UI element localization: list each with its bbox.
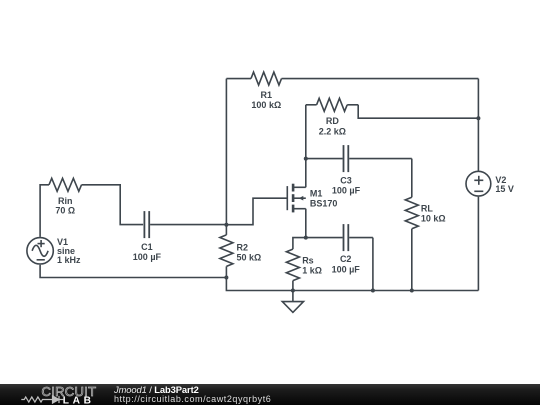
wire: V1 bottom across to R2 bottom node	[40, 265, 226, 278]
wire: M1 source down to Rs node	[305, 209, 307, 238]
resistor Rin	[49, 178, 82, 215]
wire: RD right corner down and across to right rail	[358, 105, 478, 118]
wire: RL bottom to bottom rail	[411, 229, 413, 291]
svg-text:15 V: 15 V	[495, 184, 514, 194]
wire: bottom rail	[226, 278, 478, 291]
svg-text:2.2 kΩ: 2.2 kΩ	[319, 126, 346, 136]
svg-text:1 kΩ: 1 kΩ	[302, 266, 322, 276]
CircuitLab logo wordmark CIRCUIT	[42, 384, 97, 399]
svg-text:50 kΩ: 50 kΩ	[237, 253, 262, 263]
svg-text:RD: RD	[326, 116, 339, 126]
capacitor C1	[133, 211, 227, 262]
ground	[282, 291, 303, 313]
resistor RL	[405, 197, 445, 229]
voltage source V2 15V	[466, 171, 514, 196]
wire: C2 right down to bottom rail	[372, 238, 374, 291]
junction dot: source / Rs / C2 node	[304, 236, 308, 240]
svg-text:C1: C1	[141, 242, 153, 252]
resistor RD	[306, 98, 358, 136]
svg-text:70 Ω: 70 Ω	[55, 205, 75, 215]
wire: gate lead from node up-over to M1 gate	[226, 198, 287, 225]
wire: Rin right over and down to C1 level	[82, 185, 144, 225]
capacitor C3	[306, 145, 412, 195]
svg-text:BS170: BS170	[310, 199, 338, 209]
resistor R2	[220, 225, 261, 278]
svg-text:R1: R1	[261, 90, 273, 100]
footer bar	[0, 384, 540, 405]
svg-text:100 µF: 100 µF	[133, 252, 162, 262]
junction dot: drain / C3 node	[304, 157, 308, 161]
junction dot: ground stem on bottom rail	[291, 289, 295, 293]
wire: top rail from R1 left corner to right rail	[226, 78, 478, 80]
resistor Rs	[286, 238, 322, 291]
CircuitLab logo wordmark LAB	[63, 396, 95, 405]
svg-text:LAB: LAB	[63, 396, 95, 405]
svg-text:RL: RL	[421, 203, 433, 213]
voltage source V1 sine 1kHz	[27, 237, 81, 265]
resistor R1	[251, 72, 282, 110]
wire: right rail vertical (top to V2, V2 to bottom rail)	[477, 79, 479, 291]
svg-text:Rs: Rs	[302, 255, 314, 265]
svg-text:100 µF: 100 µF	[332, 265, 361, 275]
svg-text:100 kΩ: 100 kΩ	[251, 100, 281, 110]
svg-text:R2: R2	[237, 242, 249, 252]
capacitor C2	[306, 224, 373, 274]
wire: C3 right down to RL top	[411, 159, 413, 198]
wire: drain vertical from RD corner through C3 node to M1 drain	[305, 105, 307, 188]
svg-text:M1: M1	[310, 188, 323, 198]
junction dot: V1 / R2 bottom node	[224, 276, 228, 280]
junction dot: C2 on bottom rail	[371, 289, 375, 293]
junction dot: RL on bottom rail	[410, 289, 414, 293]
transistor M1 BS170 (NMOS)	[287, 184, 337, 213]
svg-text:C3: C3	[340, 175, 352, 185]
svg-text:C2: C2	[340, 254, 352, 264]
junction dot: gate / C1 / R1 / R2 node	[224, 223, 228, 227]
wire: V1 top up to Rin	[40, 185, 49, 237]
junction dot: RD wire on right rail	[476, 116, 480, 120]
svg-text:1 kHz: 1 kHz	[57, 255, 81, 265]
svg-text:10 kΩ: 10 kΩ	[421, 214, 446, 224]
svg-text:100 µF: 100 µF	[332, 186, 361, 196]
wire: left vertical from R1 down to gate node	[225, 79, 227, 225]
CircuitLab logo doodle: resistor + diode	[21, 396, 63, 403]
